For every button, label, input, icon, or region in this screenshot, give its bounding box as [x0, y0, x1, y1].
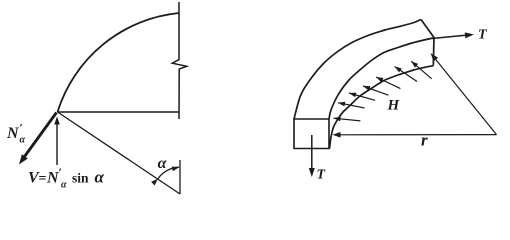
radius line to top end with arrowhead — [434, 58, 496, 135]
T arrow at top end — [432, 35, 468, 39]
vertical tick at angle corner — [179, 160, 181, 194]
slant radius line to angle corner — [58, 112, 181, 194]
tube outer edge arc — [294, 20, 421, 120]
svg-text:α: α — [158, 155, 168, 172]
svg-text:N: N — [6, 125, 20, 142]
svg-text:r: r — [421, 131, 428, 150]
T arrow at bottom end — [311, 135, 313, 171]
tube inner front edge arc — [329, 38, 434, 119]
vertical axis line with break symbol — [172, 2, 186, 119]
horizontal span line — [58, 111, 180, 113]
svg-text:=: = — [39, 172, 47, 187]
tube inner back edge arc — [330, 66, 434, 149]
svg-text:α: α — [95, 168, 105, 187]
radius line r (horizontal) with arrowhead — [338, 134, 497, 136]
svg-text:T: T — [317, 168, 327, 183]
arch curve (left figure) — [58, 13, 180, 112]
vertical V force arrow — [56, 123, 58, 165]
thick N-alpha force arrow — [22, 113, 57, 161]
top end face edges — [421, 20, 434, 66]
svg-text:α: α — [20, 135, 26, 146]
angle alpha arc with arrowheads — [158, 167, 179, 179]
svg-text:T: T — [478, 28, 488, 43]
svg-text:H: H — [387, 98, 401, 114]
svg-text:sin: sin — [72, 171, 89, 186]
bottom end cross-section rectangle — [294, 119, 329, 149]
svg-text:′: ′ — [59, 165, 62, 179]
svg-text:′: ′ — [20, 121, 23, 135]
distributed pressure arrows H — [334, 118, 361, 121]
svg-text:α: α — [61, 180, 67, 191]
